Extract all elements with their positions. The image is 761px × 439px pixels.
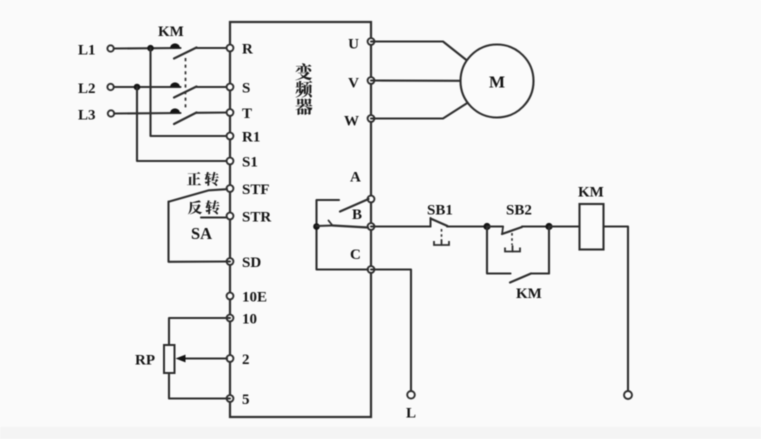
terminal W — [344, 114, 374, 130]
svg-text:R1: R1 — [242, 130, 260, 146]
junction on L2 wire — [134, 84, 141, 91]
contactor KM main contact 1 — [170, 43, 230, 58]
svg-text:L3: L3 — [78, 108, 96, 124]
label 反转 (reverse) — [188, 200, 220, 214]
relay common wire (C to pole) — [317, 200, 369, 270]
terminal 2 — [227, 352, 250, 368]
wire L1 to KM contact — [114, 47, 181, 50]
svg-text:S: S — [242, 81, 250, 97]
terminal STR — [227, 210, 272, 226]
terminal U — [348, 37, 374, 53]
junction node 1 — [483, 223, 490, 230]
svg-text:L2: L2 — [78, 81, 96, 97]
pushbutton SB1 (NC) — [431, 218, 488, 227]
svg-text:STR: STR — [242, 210, 271, 226]
svg-text:R: R — [242, 42, 253, 58]
wire SA common to SD — [169, 202, 231, 262]
wire junction 2 to coil — [549, 225, 580, 227]
wire branch down from junction 1 — [487, 227, 511, 274]
label RP — [135, 353, 155, 369]
wire coil to end terminal — [604, 227, 629, 392]
wire 10 to RP top — [169, 318, 230, 345]
svg-text:M: M — [489, 73, 505, 92]
svg-text:V: V — [348, 76, 359, 92]
wire V to motor — [371, 79, 461, 81]
coil KM — [580, 204, 604, 250]
svg-text:S1: S1 — [242, 155, 258, 171]
terminal R1 — [227, 130, 261, 146]
wire L2 junction down to S1 — [137, 87, 230, 161]
label SA — [191, 224, 212, 243]
svg-text:SB2: SB2 — [506, 203, 532, 219]
wire U to motor — [371, 42, 467, 61]
label 正转 (forward) — [187, 172, 219, 186]
contactor KM main contact 2 — [170, 82, 230, 97]
label KM (main contacts) — [158, 24, 184, 40]
svg-text:10: 10 — [242, 312, 257, 328]
terminal V — [348, 76, 374, 92]
terminal SD — [227, 255, 262, 271]
label SB1 — [427, 203, 453, 219]
terminal S1 — [227, 155, 258, 171]
label KM (auxiliary contact) — [516, 286, 542, 302]
wire W to motor — [371, 104, 467, 119]
svg-text:C: C — [350, 247, 361, 263]
terminal C — [350, 247, 374, 273]
svg-text:L1: L1 — [78, 43, 96, 59]
wire B to SB1 — [371, 225, 431, 227]
terminal 10E — [227, 290, 267, 306]
motor M — [461, 45, 534, 118]
terminal R — [227, 42, 253, 58]
svg-text:SA: SA — [191, 224, 212, 243]
node L2 — [78, 81, 114, 97]
label 变频器 (inverter) — [295, 63, 312, 115]
svg-text:KM: KM — [578, 185, 604, 201]
svg-text:B: B — [352, 207, 362, 223]
SB2 operator dashed — [505, 233, 520, 252]
mechanical linkage dashed line — [185, 58, 187, 110]
svg-text:T: T — [242, 106, 252, 122]
switch SA blade to STF — [169, 189, 228, 202]
svg-text:W: W — [344, 114, 359, 130]
terminal B — [352, 207, 374, 230]
switch SA reverse contact stub — [201, 216, 227, 218]
SB1 operator dashed — [434, 229, 449, 245]
terminal A — [350, 170, 374, 203]
contactor KM main contact 3 — [170, 108, 230, 124]
node L3 — [78, 108, 114, 124]
node L1 — [78, 43, 114, 59]
junction on pole wire — [313, 223, 320, 230]
wire L1 junction down to R1 — [151, 48, 231, 136]
svg-text:A: A — [350, 170, 361, 186]
terminal T — [227, 106, 252, 122]
wire RP bottom to terminal 5 — [169, 373, 230, 399]
svg-text:KM: KM — [158, 24, 184, 40]
contactor KM auxiliary contact — [510, 274, 549, 283]
inverter box 变频器 U1 — [230, 22, 371, 417]
wire branch up to junction 2 — [548, 227, 550, 274]
junction node 2 — [545, 223, 552, 230]
junction on L1 wire — [147, 45, 154, 52]
relay blade to B with pivot tick — [317, 221, 369, 228]
label KM (coil) — [578, 185, 604, 201]
svg-text:10E: 10E — [242, 290, 267, 306]
resistor RP body — [164, 345, 175, 373]
svg-text:L: L — [406, 406, 416, 422]
terminal 5 — [227, 392, 250, 408]
svg-text:RP: RP — [135, 353, 155, 369]
wire L3 to KM contact — [114, 112, 180, 115]
svg-text:2: 2 — [242, 352, 250, 368]
wire C to terminal L — [371, 270, 411, 392]
terminal STF — [227, 182, 270, 198]
RP wiper arrow to terminal 2 — [176, 355, 228, 363]
svg-text:U: U — [348, 37, 359, 53]
svg-text:SD: SD — [242, 255, 261, 271]
svg-text:5: 5 — [242, 392, 250, 408]
svg-text:SB1: SB1 — [427, 203, 453, 219]
svg-text:STF: STF — [242, 182, 270, 198]
relay blade to A — [340, 199, 369, 212]
node L — [406, 391, 416, 422]
label SB2 — [506, 203, 532, 219]
pushbutton SB2 (NO) — [487, 227, 549, 235]
wire L2 to KM contact — [114, 86, 181, 88]
terminal 10 — [227, 312, 257, 328]
svg-text:KM: KM — [516, 286, 542, 302]
terminal S — [227, 81, 251, 97]
end terminal circle — [624, 391, 632, 399]
